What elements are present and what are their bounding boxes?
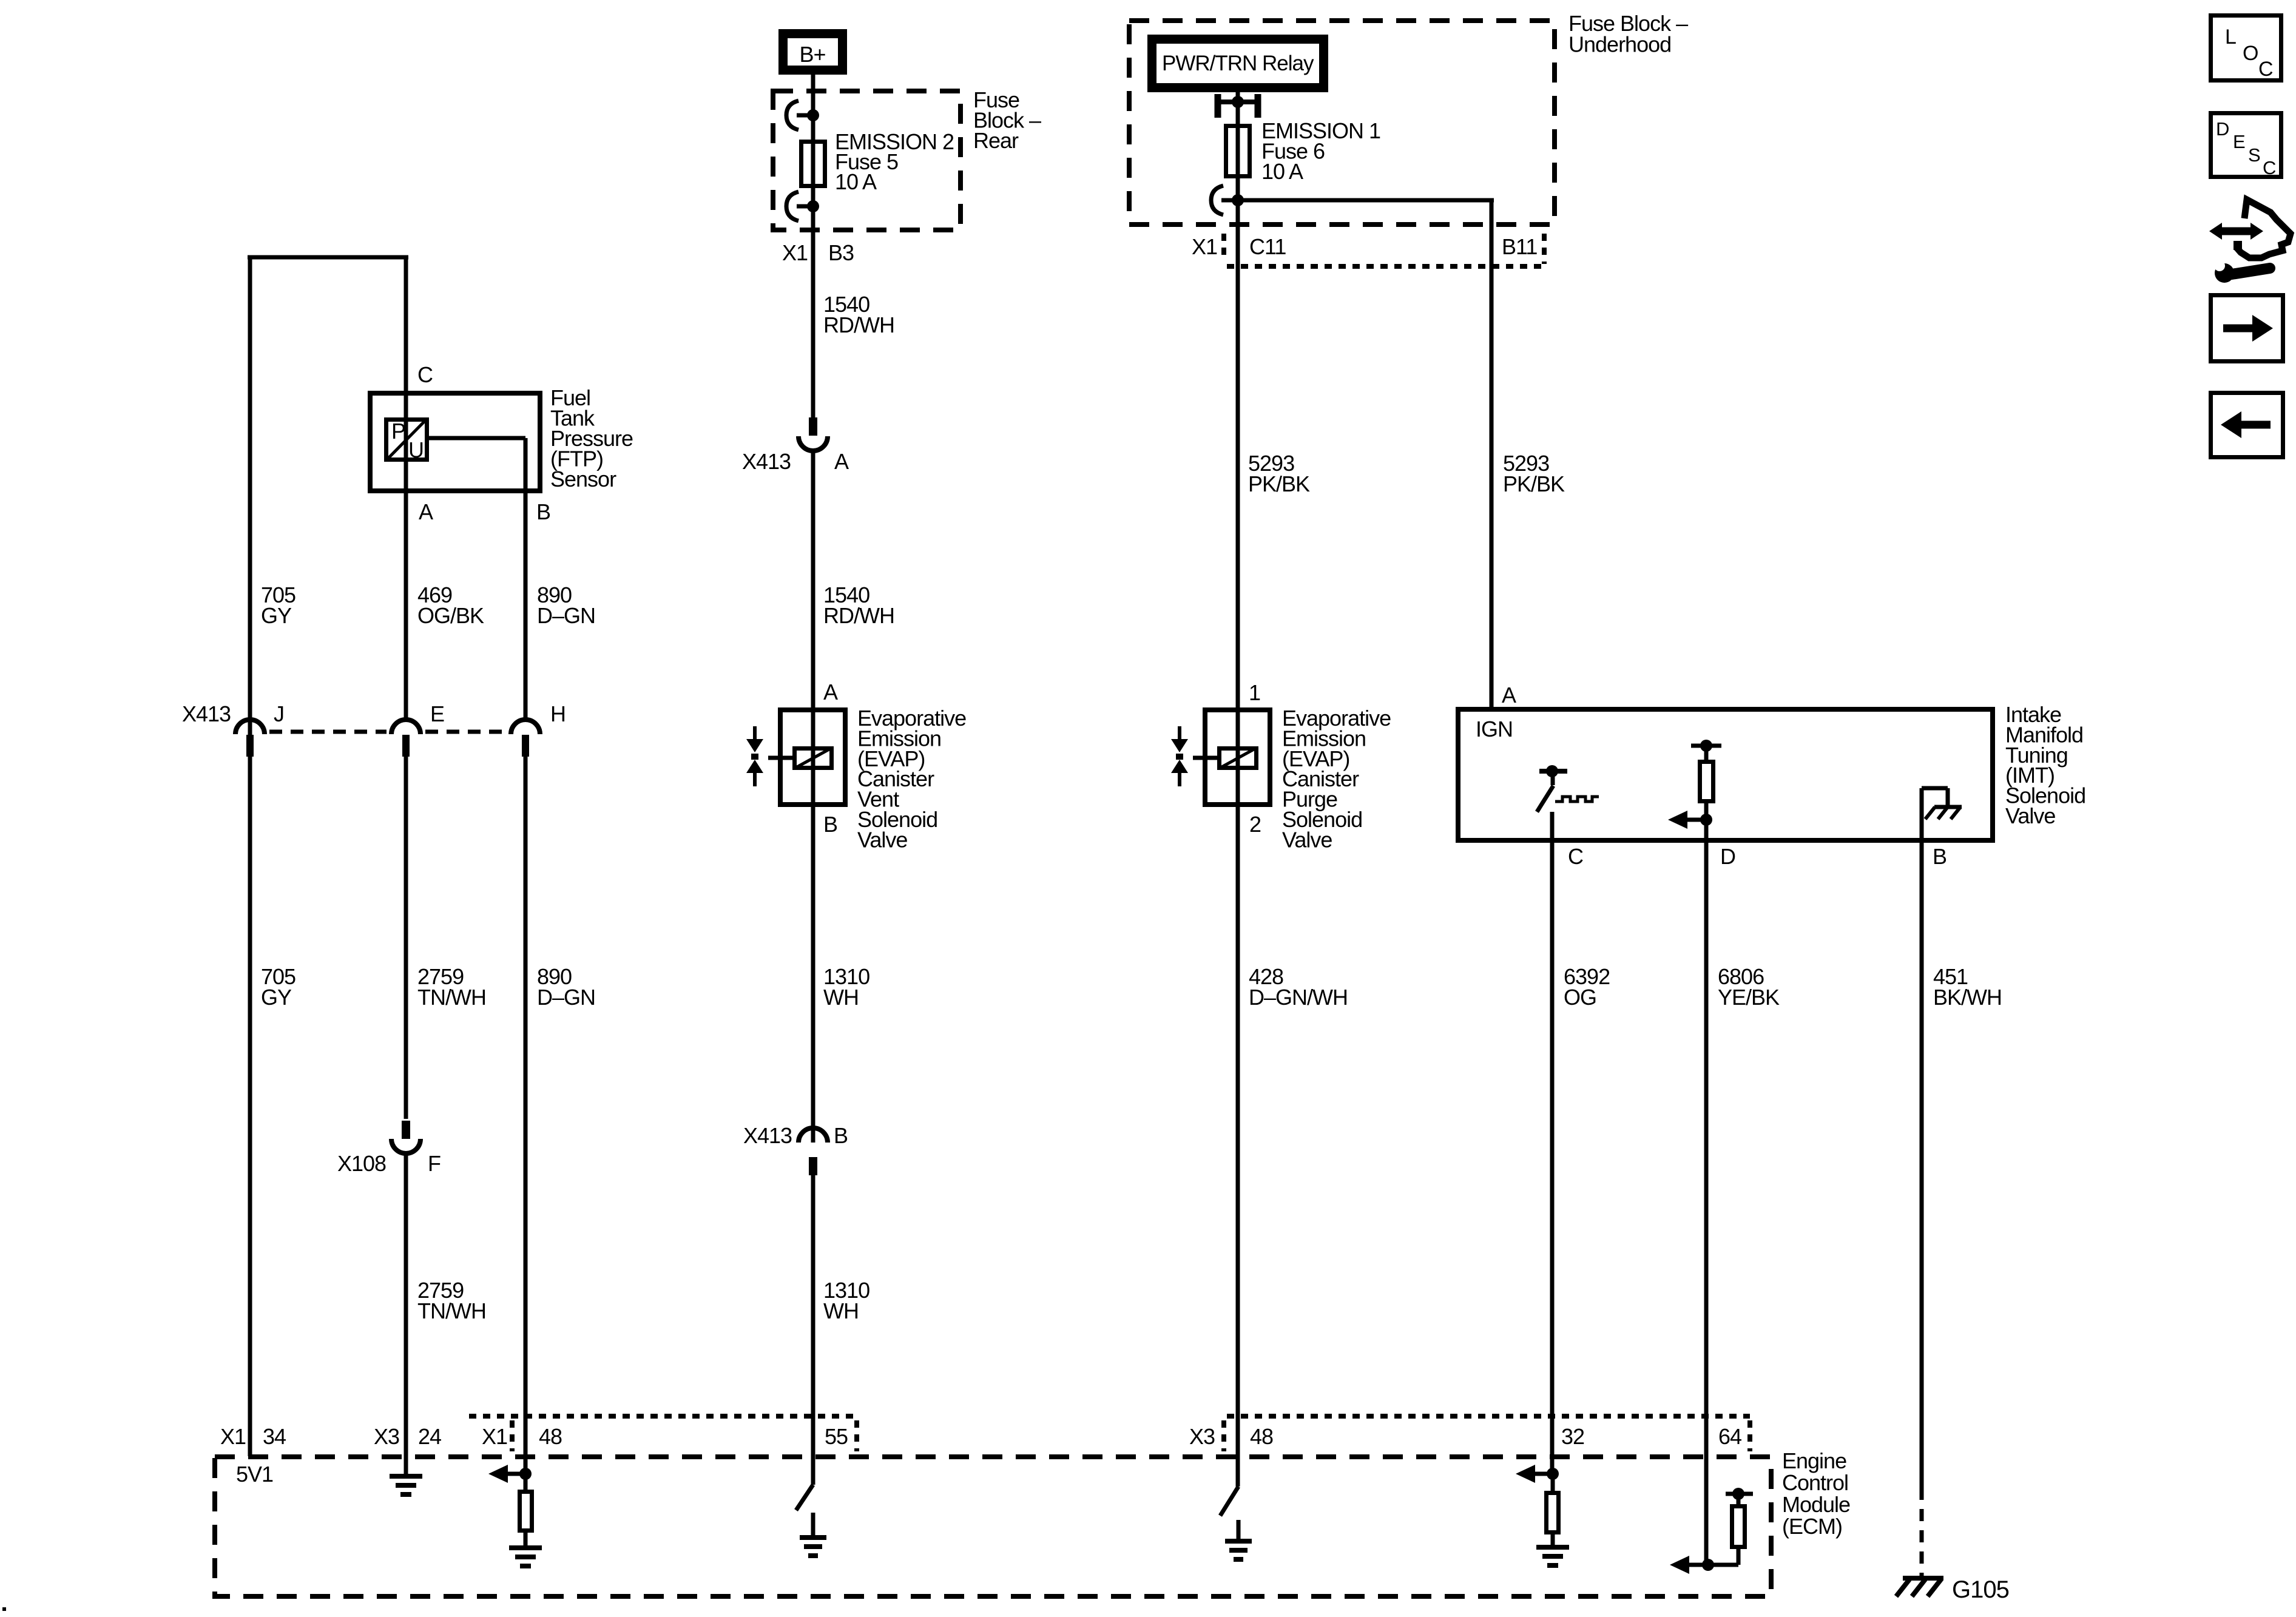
svg-text:WH: WH <box>823 985 859 1010</box>
svg-text:48: 48 <box>1250 1424 1273 1449</box>
svg-text:GY: GY <box>261 985 292 1010</box>
svg-text:X3: X3 <box>1189 1424 1215 1449</box>
svg-text:A: A <box>419 499 433 524</box>
svg-text:A: A <box>823 680 838 704</box>
svg-text:J: J <box>274 701 284 726</box>
svg-text:24: 24 <box>418 1424 441 1449</box>
svg-text:PWR/TRN Relay: PWR/TRN Relay <box>1162 52 1314 75</box>
svg-text:B: B <box>823 812 837 837</box>
svg-text:X1: X1 <box>1192 234 1217 259</box>
svg-text:D–GN: D–GN <box>537 985 595 1010</box>
svg-text:H: H <box>550 701 566 726</box>
svg-text:32: 32 <box>1561 1424 1584 1449</box>
svg-text:RD/WH: RD/WH <box>823 603 894 628</box>
svg-text:E: E <box>2233 131 2245 152</box>
svg-text:F: F <box>428 1151 441 1176</box>
svg-text:Valve: Valve <box>1282 827 1332 852</box>
svg-text:B+: B+ <box>799 42 825 67</box>
svg-text:IGN: IGN <box>1476 717 1513 741</box>
svg-text:S: S <box>2248 144 2260 166</box>
svg-text:C: C <box>2258 58 2273 81</box>
svg-text:B: B <box>1933 844 1947 869</box>
svg-text:X1: X1 <box>220 1424 246 1449</box>
svg-text:X3: X3 <box>374 1424 399 1449</box>
svg-text:TN/WH: TN/WH <box>417 985 486 1010</box>
svg-text:D–GN: D–GN <box>537 603 595 628</box>
svg-text:P: P <box>391 419 405 444</box>
svg-text:Engine: Engine <box>1782 1448 1846 1473</box>
svg-text:O: O <box>2243 42 2258 65</box>
svg-text:GY: GY <box>261 603 292 628</box>
svg-text:A: A <box>834 449 849 474</box>
svg-text:10 A: 10 A <box>1261 159 1303 184</box>
svg-text:BK/WH: BK/WH <box>1933 985 2002 1010</box>
svg-text:C11: C11 <box>1249 234 1286 259</box>
svg-text:OG/BK: OG/BK <box>417 603 484 628</box>
svg-text:L: L <box>2225 25 2236 49</box>
svg-text:64: 64 <box>1718 1424 1741 1449</box>
svg-text:A: A <box>1502 683 1516 707</box>
svg-text:X1: X1 <box>782 240 808 265</box>
svg-text:X413: X413 <box>742 449 791 474</box>
svg-text:RD/WH: RD/WH <box>823 312 894 337</box>
svg-text:2: 2 <box>1249 812 1261 837</box>
svg-text:Underhood: Underhood <box>1568 32 1671 57</box>
svg-text:U: U <box>408 437 424 462</box>
svg-text:TN/WH: TN/WH <box>417 1298 486 1323</box>
svg-text:Module: Module <box>1782 1492 1850 1517</box>
svg-text:B3: B3 <box>828 240 854 265</box>
svg-text:(ECM): (ECM) <box>1782 1514 1842 1539</box>
svg-text:D–GN/WH: D–GN/WH <box>1249 985 1348 1010</box>
svg-text:OG: OG <box>1564 985 1596 1010</box>
svg-text:48: 48 <box>539 1424 562 1449</box>
svg-text:Sensor: Sensor <box>550 467 616 491</box>
svg-text:55: 55 <box>825 1424 848 1449</box>
svg-text:E: E <box>430 701 444 726</box>
svg-text:X1: X1 <box>482 1424 507 1449</box>
svg-text:10 A: 10 A <box>835 169 877 194</box>
svg-text:B11: B11 <box>1502 234 1537 259</box>
svg-text:C: C <box>417 362 433 387</box>
svg-text:Control: Control <box>1782 1470 1848 1495</box>
svg-text:Valve: Valve <box>2005 803 2055 828</box>
svg-text:C: C <box>1568 844 1583 869</box>
svg-text:1: 1 <box>1249 680 1260 705</box>
svg-text:X413: X413 <box>182 701 231 726</box>
svg-text:YE/BK: YE/BK <box>1718 985 1780 1010</box>
svg-text:B: B <box>536 499 550 524</box>
svg-text:5V1: 5V1 <box>236 1462 273 1487</box>
svg-text:D: D <box>2216 118 2229 140</box>
svg-text:C: C <box>2263 157 2276 178</box>
svg-text:PK/BK: PK/BK <box>1503 471 1565 496</box>
svg-text:B: B <box>834 1123 848 1148</box>
svg-text:X413: X413 <box>743 1123 792 1148</box>
svg-text:PK/BK: PK/BK <box>1248 471 1310 496</box>
svg-text:34: 34 <box>263 1424 286 1449</box>
svg-text:WH: WH <box>823 1298 859 1323</box>
svg-text:D: D <box>1720 844 1735 869</box>
svg-text:Rear: Rear <box>973 128 1019 153</box>
svg-text:G105: G105 <box>1952 1576 2009 1603</box>
svg-text:X108: X108 <box>337 1151 386 1176</box>
svg-text:Valve: Valve <box>857 827 907 852</box>
